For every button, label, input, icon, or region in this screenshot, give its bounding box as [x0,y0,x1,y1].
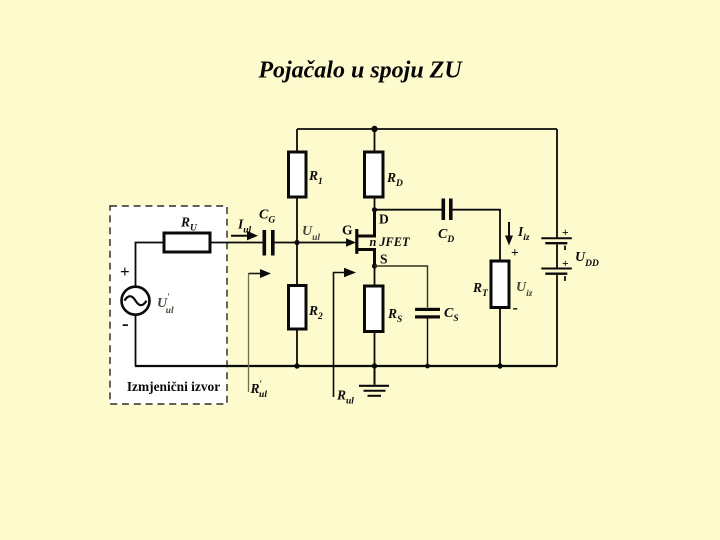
wire: R2 bottom to bottom rail [296,329,298,366]
resistor RT [472,261,509,308]
resistor RS [365,286,403,332]
svg-text:+: + [562,227,569,239]
wire: CS bottom to bottom rail [427,319,429,367]
junction RS/bottom rail [372,363,377,368]
current arrow Iul [231,217,258,241]
capacitor CG [259,208,275,256]
wire: AC source top to RU [136,243,165,287]
svg-text:-: - [122,313,129,335]
junction R2/bottom rail [294,363,299,368]
wire: gate node down to R2 [296,243,298,286]
top rail [297,128,557,130]
capacitor CD [438,199,454,246]
resistor R1 [289,152,323,197]
svg-text:+: + [562,258,569,270]
wire: RS bottom to bottom rail [374,332,376,367]
bottom rail [135,365,557,367]
junction CS/bottom rail [425,364,430,369]
node D junction [372,207,377,212]
wire: CG to gate node [275,242,347,244]
right rail top [556,129,558,238]
resistor RD [365,152,404,197]
capacitor CS [415,306,459,324]
battery UDD cell 1 [541,227,572,250]
svg-text:Izmjenični izvor: Izmjenični izvor [127,379,220,394]
measurement arrow Rul [334,268,357,407]
measurement arrow R'ul [249,269,272,400]
transistor Q1 n JFET [342,210,410,267]
wire: drain node to CD [375,209,442,211]
svg-text:+: + [511,245,519,260]
svg-text:D: D [379,212,389,227]
current arrow Iiz [505,222,530,246]
right rail bottom [556,275,558,366]
svg-text:G: G [342,223,353,238]
svg-text:n JFET: n JFET [370,235,410,249]
wire: RT bottom to bottom rail [499,308,501,367]
junction top rail / RD [371,126,377,132]
wire: S node to RS [374,266,376,286]
wire: CD to RT branch [453,210,500,261]
node S junction [372,263,377,268]
svg-text:-: - [513,300,518,317]
svg-text:Pojačalo u spoju ZU: Pojačalo u spoju ZU [257,58,463,84]
resistor RU [164,215,210,253]
wire: AC source bottom to bottom rail [135,315,137,366]
svg-text:S: S [380,252,388,267]
wire: RD bottom to drain node [374,197,376,210]
wire between battery cells [556,244,558,267]
AC source U'ul [120,262,174,335]
svg-text:+: + [120,262,130,281]
junction RT/bottom rail [497,363,502,368]
ground [359,366,389,396]
resistor R2 [289,286,324,330]
wire: top rail to RD [374,129,376,152]
wire: R1 bottom to gate node [296,197,298,243]
wire: S node to CS [375,266,428,308]
AC source dashed enclosure [110,206,227,404]
battery UDD cell 2 [541,258,572,281]
wire: RU right to CG [210,242,263,244]
wire: top rail to R1 [296,129,298,152]
node Uul junction [294,240,299,245]
